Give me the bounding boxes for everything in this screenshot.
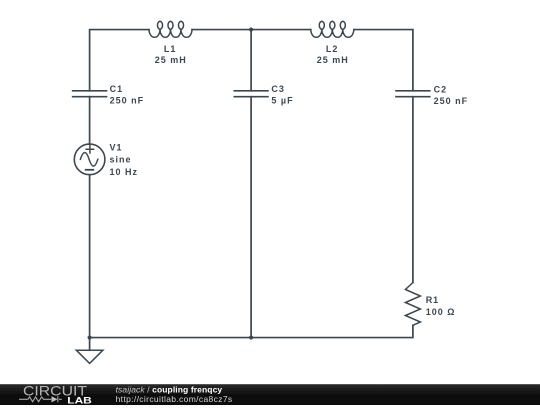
svg-text:V1: V1 <box>110 142 123 152</box>
svg-text:250 nF: 250 nF <box>110 96 145 106</box>
svg-text:L2: L2 <box>326 44 339 54</box>
svg-text:tsaijack / coupling frenqcy: tsaijack / coupling frenqcy <box>116 384 223 394</box>
svg-text:L1: L1 <box>164 44 177 54</box>
svg-text:250 nF: 250 nF <box>434 96 469 106</box>
svg-text:25 mH: 25 mH <box>317 55 349 65</box>
svg-text:5 µF: 5 µF <box>271 96 293 106</box>
svg-text:C1: C1 <box>110 84 124 94</box>
svg-text:C2: C2 <box>434 84 448 94</box>
svg-text:R1: R1 <box>426 295 440 305</box>
svg-text:http://circuitlab.com/ca8cz7s: http://circuitlab.com/ca8cz7s <box>116 394 233 404</box>
svg-text:LAB: LAB <box>67 396 92 405</box>
svg-text:10 Hz: 10 Hz <box>110 167 139 177</box>
svg-text:C3: C3 <box>271 84 285 94</box>
svg-text:25 mH: 25 mH <box>155 55 187 65</box>
svg-text:sine: sine <box>110 155 132 165</box>
svg-text:100 Ω: 100 Ω <box>426 307 456 317</box>
